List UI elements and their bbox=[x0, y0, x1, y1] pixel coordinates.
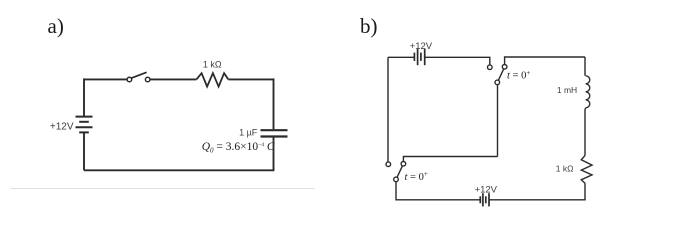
wire left vertical top circuit a bbox=[83, 78, 85, 116]
wire middle vertical circuit b bbox=[497, 85, 499, 157]
wire left vertical bottom circuit a bbox=[83, 132, 85, 170]
wire top-left segment circuit a bbox=[84, 78, 127, 80]
wire switch-to-topright circuit b bbox=[505, 57, 585, 64]
wire switch-to-resistor circuit a bbox=[150, 78, 196, 80]
battery V1 +12V circuit a bbox=[76, 117, 93, 133]
wire battery-to-switch circuit b bbox=[425, 57, 490, 64]
battery V3 +12V circuit b bottom bbox=[480, 193, 489, 206]
wire right vertical top circuit a bbox=[273, 78, 275, 129]
resistor R 1kΩ circuit a bbox=[196, 73, 228, 86]
svg-text:Q0 = 3.6×10−4 C: Q0 = 3.6×10−4 C bbox=[202, 141, 275, 155]
wire top-left segment circuit b bbox=[388, 56, 414, 58]
resistor R 1kΩ circuit b bbox=[581, 156, 592, 184]
battery V2 +12V circuit b top bbox=[414, 49, 424, 65]
wire middle horizontal circuit b bbox=[403, 157, 497, 162]
wire bottom circuit a bbox=[84, 169, 274, 171]
wire bottom left segment circuit b bbox=[396, 182, 480, 200]
svg-text:1 mH: 1 mH bbox=[557, 85, 577, 95]
svg-text:b): b) bbox=[360, 14, 378, 38]
wire inductor-to-resistor circuit b bbox=[584, 108, 587, 156]
switch S3 (SPDT, t=0+) circuit b bottom bbox=[386, 162, 406, 182]
svg-text:1 kΩ: 1 kΩ bbox=[203, 60, 222, 70]
capacitor C 1µF circuit a bbox=[261, 130, 288, 136]
svg-text:+12V: +12V bbox=[50, 122, 74, 133]
wire right vertical to inductor circuit b bbox=[584, 57, 586, 76]
svg-text:+12V: +12V bbox=[475, 185, 498, 196]
switch S2 (SPDT, t=0+) circuit b top bbox=[488, 65, 507, 85]
inductor L 1mH circuit b bbox=[586, 76, 590, 108]
svg-text:+12V: +12V bbox=[410, 41, 433, 52]
wire bottom right segment circuit b bbox=[489, 199, 586, 201]
wire resistor-to-bottom circuit b bbox=[584, 183, 586, 200]
switch S1 (open) circuit a bbox=[127, 72, 150, 81]
wire left vertical circuit b bbox=[387, 57, 389, 162]
wire resistor-to-corner circuit a bbox=[228, 78, 273, 80]
divider line bbox=[10, 188, 315, 190]
svg-text:1 µF: 1 µF bbox=[239, 127, 258, 137]
svg-text:1 kΩ: 1 kΩ bbox=[556, 163, 574, 173]
wire right vertical bottom circuit a bbox=[273, 138, 275, 171]
svg-text:a): a) bbox=[48, 14, 64, 38]
